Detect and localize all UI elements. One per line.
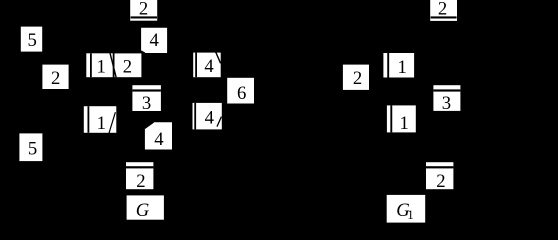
edge segment vertical through node 1 bbox=[87, 106, 89, 133]
edge segment diagonal between node 1 and node 2 bbox=[110, 53, 116, 78]
graph label G bbox=[127, 195, 164, 220]
node 1 (upper, G1, vertical edge through it) bbox=[383, 53, 414, 78]
node 1 (lower, G1, vertical edge through it) bbox=[387, 105, 416, 134]
node 2 (middle row of G) bbox=[115, 53, 142, 77]
node 2 (overlined) bottom of G bbox=[126, 162, 153, 192]
svg-text:2: 2 bbox=[438, 0, 447, 20]
svg-text:2: 2 bbox=[136, 171, 145, 192]
node 4 lower-right of G (vertical edge through it, short diagonal at right) bbox=[193, 103, 222, 129]
svg-text:5: 5 bbox=[28, 138, 37, 159]
svg-text:2: 2 bbox=[353, 68, 362, 89]
svg-text:4: 4 bbox=[205, 108, 215, 129]
edge segment vertical through node 1 bbox=[90, 53, 92, 77]
svg-text:G: G bbox=[136, 200, 150, 221]
node 2 left of G1 bbox=[343, 65, 369, 90]
svg-text:2: 2 bbox=[436, 171, 445, 192]
node 4 top of G (corner cut bottom-left by edge) bbox=[141, 28, 167, 53]
svg-text:6: 6 bbox=[237, 83, 246, 104]
node 5 lower-left of G bbox=[19, 133, 42, 161]
svg-text:3: 3 bbox=[442, 93, 451, 114]
edge segment vertical through lower node 1 of G1 bbox=[390, 105, 392, 132]
svg-text:1: 1 bbox=[97, 113, 106, 134]
node 4 upper-right of G (vertical edge through it, diagonal across corner) bbox=[193, 52, 221, 77]
node 2 (overlined) bottom of G1 bbox=[426, 162, 453, 192]
edge segment diagonal at node-4 top-right corner bbox=[216, 52, 221, 63]
node 1 (lower row of G, vertical edge through it, diagonal across right part) bbox=[84, 106, 117, 134]
edge segment crossing node-4 box corner bbox=[141, 51, 145, 53]
svg-text:4: 4 bbox=[204, 56, 214, 77]
node 2 left of G bbox=[42, 65, 68, 90]
svg-text:4: 4 bbox=[154, 129, 164, 150]
svg-text:2: 2 bbox=[51, 68, 60, 89]
node 3 (overlined) centre of G bbox=[132, 85, 161, 114]
edge segment diagonal through node-1 right part bbox=[109, 112, 116, 133]
svg-text:2: 2 bbox=[123, 56, 132, 77]
svg-text:1: 1 bbox=[97, 56, 106, 77]
node 3 (overlined) of G1 bbox=[433, 85, 460, 114]
edge segment diagonal at node-4 top-left corner bbox=[145, 122, 154, 128]
edge segment vertical through node 4 bbox=[195, 53, 197, 78]
graph label G1 bbox=[387, 195, 426, 223]
edge segment diagonal near node-4 right edge bbox=[217, 117, 221, 127]
svg-text:4: 4 bbox=[150, 30, 160, 51]
svg-text:1: 1 bbox=[398, 57, 407, 78]
node 2 (underlined) top of G1 bbox=[430, 0, 457, 21]
node 2 (underlined) top of G bbox=[130, 0, 157, 21]
svg-text:3: 3 bbox=[142, 93, 151, 114]
edge segment vertical through node 1 of G1 bbox=[387, 53, 389, 78]
svg-text:1: 1 bbox=[400, 113, 409, 134]
edge segment vertical through node 4 bbox=[194, 103, 196, 129]
svg-text:5: 5 bbox=[28, 30, 37, 51]
node 5 upper-left of G bbox=[21, 27, 42, 52]
node 1 (middle row of G, with vertical edge through it) bbox=[86, 53, 112, 77]
svg-text:2: 2 bbox=[139, 0, 148, 20]
svg-text:1: 1 bbox=[407, 208, 413, 222]
node 4 bottom of G (top-left corner cut by edge) bbox=[145, 122, 172, 150]
node 6 right of G bbox=[227, 78, 254, 104]
